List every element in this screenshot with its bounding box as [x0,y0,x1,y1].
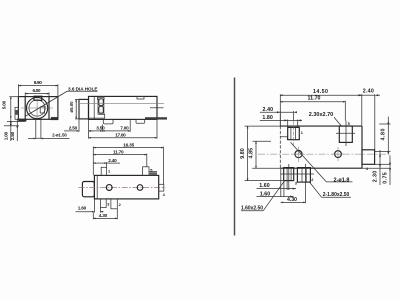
VIEW D: pad 2 centerline [304,164,306,203]
svg-text:4.85: 4.85 [248,148,254,159]
VIEW B: internal horizontal line [80,102,164,104]
svg-text:2-ø1.50: 2-ø1.50 [52,133,67,138]
svg-text:9.80: 9.80 [240,148,246,159]
VIEW A: jack inner circle [29,100,45,116]
VIEW C: bottom view body [94,175,158,199]
dim 2.50 (side) [64,120,94,132]
svg-text:ø5.00: ø5.00 [69,101,74,112]
dim 11.70 (view D) [280,96,345,121]
svg-text:2.30: 2.30 [373,171,379,183]
dim 3.50 (side) [89,125,106,132]
dim 4.30 (view C) [93,209,117,219]
svg-text:9.90: 9.90 [34,80,42,85]
dim 2.40 left (view D) [260,107,297,126]
VIEW A: center pin [36,119,41,139]
dim 7.00 (side) [102,120,130,132]
dim 16.35 [93,142,163,184]
dim 1.60 (view C) [76,199,104,213]
VIEW C: pin 3 [101,199,107,208]
dim 11.70 (view C) [93,149,147,166]
VIEW D: hole A [293,147,305,163]
VIEW A: right foot (black) [51,117,58,120]
svg-text:14.50: 14.50 [313,89,328,95]
dim 1.60 #1 (view D) [257,183,297,189]
dim 6.00 [25,88,49,96]
dim 9.80 (vertical) [240,126,283,181]
svg-text:17.00: 17.00 [115,132,126,137]
VIEW B: right pin stub [145,117,167,119]
VIEW B: inner flange line [93,96,95,119]
label 2.30x2.70 [309,112,342,126]
svg-text:1.60: 1.60 [78,206,87,211]
svg-text:4.80: 4.80 [381,128,387,140]
VIEW D: pad 5 [336,121,355,147]
VIEW B: side view body [89,96,158,119]
VIEW B: top notch 2 [137,96,144,99]
VIEW C: pin 5 [143,167,150,176]
dim 1.60 #2 (view D) [257,168,294,197]
svg-text:3.50: 3.50 [96,125,105,130]
dim 4.85 (vertical) [248,141,280,168]
VIEW B: top notch 1 [98,96,105,99]
svg-text:2.40: 2.40 [363,89,374,95]
svg-text:6.00: 6.00 [33,88,41,93]
VIEW D: hole B [332,147,344,161]
VIEW A: left foot (black) [18,119,26,122]
dim 2.50 (vertical, below left) [4,119,19,141]
label 3.6 DIA HOLE [68,86,98,91]
svg-text:2.40: 2.40 [108,158,117,163]
dim phi5.00 (side, vertical) [69,99,80,119]
VIEW C: pin 2 [111,199,117,209]
svg-text:2.30x2.70: 2.30x2.70 [309,112,334,118]
VIEW C: hole 1 [106,185,112,191]
VIEW C: barrel junction line [96,175,98,199]
label 1.60x2.50 [241,181,285,212]
label 2-phi1.8 [291,142,353,183]
VIEW D: pad 1 centerline [292,121,294,146]
dim 9.90 [18,80,58,96]
dim 14.50 [280,89,362,126]
VIEW A: small center rect [40,107,44,113]
VIEW C: centerline (red tint) [79,187,166,189]
svg-text:4.30: 4.30 [99,213,108,218]
svg-text:5.00: 5.00 [2,100,7,109]
VIEW D: pad 1 [288,127,300,139]
svg-text:2.50: 2.50 [10,131,15,140]
svg-text:7.00: 7.00 [120,125,129,130]
VIEW B: foot 1 [103,119,113,124]
VIEW C: barrel left [82,182,94,197]
svg-text:3.6 DIA HOLE: 3.6 DIA HOLE [68,86,98,91]
VIEW D: pad 4 [362,150,375,165]
svg-text:2.50: 2.50 [69,126,78,131]
dim 0.75 (vertical right) [362,155,391,185]
VIEW A: jack outer circle [26,97,47,118]
VIEW A: left mounting tab [15,107,18,119]
VIEW A: bezel vertical lines [25,97,49,120]
VIEW D: internal line under pads23 [280,173,314,175]
VIEW B: internal contact block [89,98,105,118]
svg-text:1.00: 1.00 [4,131,9,140]
VIEW B: side view barrel [79,99,89,119]
svg-text:2-ø1.8: 2-ø1.8 [334,177,350,183]
VIEW D: pad 2 [297,168,310,183]
VIEW A: vertical centerline [36,97,38,119]
VIEW B: top right stub line [150,107,164,109]
dim 1.00 (vertical, below left) [4,119,26,141]
VIEW D: left step [280,137,287,140]
VIEW D: pad 3 [284,168,294,190]
dim 1.80 (view D) [260,115,302,127]
svg-text:0.75: 0.75 [383,172,389,184]
dim 2.30 (vertical right) [373,150,381,185]
border vertical line [234,78,236,236]
VIEW D: horizontal centerline [258,153,390,155]
dim 17.00 (side) [89,120,158,139]
VIEW A: horizontal centerline [21,107,53,109]
svg-text:11.70: 11.70 [113,149,124,154]
VIEW C: pin 1 [101,167,106,175]
label 2-1.80x2.50 [310,182,352,198]
dim 4.80 (vertical right) [375,117,391,155]
dim 2.40 top right [358,89,380,150]
svg-text:16.35: 16.35 [123,142,134,147]
svg-text:11.70: 11.70 [308,96,321,102]
dim 2-d1.50 pin [28,133,70,139]
VIEW B: foot 2 [136,119,145,123]
VIEW C: dark tab near pin5 [149,171,157,175]
VIEW A: top notch [34,96,42,100]
VIEW D: body outline [280,126,362,168]
dim 2.40 (view C) [93,158,120,167]
VIEW D: pad 3 centerline [288,164,290,190]
dim 4.30 (view D) [281,197,306,203]
VIEW C: right pin 4 [159,184,164,191]
VIEW A: front view body outline [18,97,58,120]
dim 5.00 (vertical left) [2,97,21,119]
VIEW C: hole 2 [137,185,143,191]
VIEW A: leader diagonal for 3.6 DIA HOLE [26,91,68,116]
